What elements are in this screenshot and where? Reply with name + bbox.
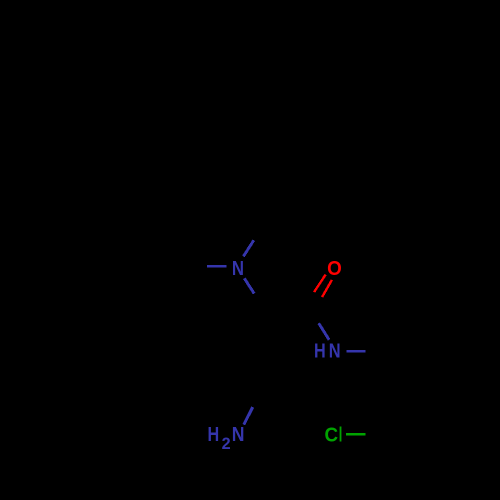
wire: bond H2N to C (upper right, N half) [244,407,253,424]
svg-text:N: N [329,339,341,362]
svg-text:l: l [338,424,343,447]
svg-text:N: N [232,256,244,279]
svg-text:H: H [314,339,326,362]
wire: C=O double bond line 2 (O half) [322,280,332,297]
svg-text:N: N [232,424,245,447]
wire: bond N to C (lower right, N half) [244,278,254,293]
wire: bond HN to carbonyl C (upper left, N half) [319,323,329,340]
svg-text:H: H [207,422,219,445]
svg-text:O: O [327,257,342,280]
wire: bond HN to C (right horizontal, N half) [346,350,365,353]
wire: bond N to C (upper right, N half) [243,240,253,256]
wire: bond N to C (left horizontal, N half) [207,265,227,267]
wire: bond Cl to C (right horizontal, Cl half) [346,433,365,436]
wire: C=O double bond line 1 (O half) [314,275,326,293]
svg-text:2: 2 [222,435,231,453]
svg-text:C: C [324,424,338,447]
